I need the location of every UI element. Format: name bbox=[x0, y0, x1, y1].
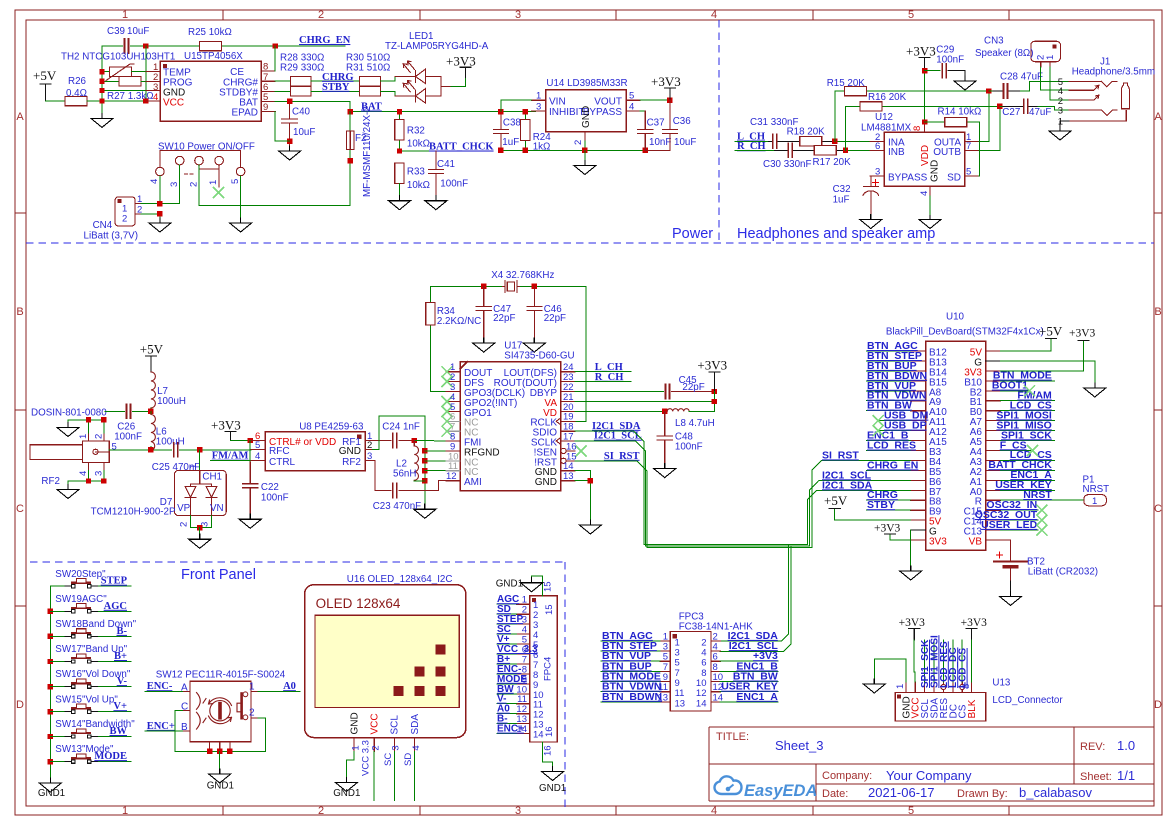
junction bbox=[48, 734, 53, 739]
capacitor C37 bbox=[638, 111, 653, 151]
svg-text:16: 16 bbox=[543, 745, 554, 756]
wire INA feedback vertical bbox=[835, 91, 989, 141]
ground under C32 bbox=[860, 215, 882, 229]
encoder C and pin2 wires bbox=[175, 711, 265, 752]
junction bbox=[197, 447, 202, 452]
capacitor C27 bbox=[1000, 105, 1003, 107]
resistor R25 bbox=[200, 41, 222, 50]
FPC3 outer pin numbers bbox=[657, 631, 668, 703]
frame row tick marks left bbox=[15, 213, 26, 606]
svg-text:X4 32.768KHz: X4 32.768KHz bbox=[491, 270, 554, 281]
switch SW17 bbox=[50, 644, 131, 663]
junction bbox=[248, 438, 253, 443]
svg-text:2: 2 bbox=[371, 745, 382, 750]
wire +5V to R26 bbox=[46, 100, 66, 102]
resistor R14 bbox=[925, 122, 980, 176]
svg-text:+3V3: +3V3 bbox=[211, 417, 241, 432]
svg-text:DOSIN-801-0080: DOSIN-801-0080 bbox=[31, 408, 107, 419]
svg-text:SDA: SDA bbox=[410, 714, 421, 735]
junction bbox=[667, 98, 672, 103]
ground under R33 bbox=[389, 196, 411, 210]
svg-text:GND: GND bbox=[350, 712, 361, 734]
svg-text:+5V: +5V bbox=[1039, 324, 1063, 339]
svg-text:2: 2 bbox=[94, 434, 105, 439]
svg-text:R31 510Ω: R31 510Ω bbox=[346, 62, 390, 73]
svg-text:GND1: GND1 bbox=[207, 781, 234, 792]
wire L_CH row bbox=[735, 140, 870, 142]
svg-text:CHRG_EN: CHRG_EN bbox=[867, 459, 918, 471]
IC U17 SI4735 bbox=[460, 362, 560, 491]
svg-text:Headphones and speaker amp: Headphones and speaker amp bbox=[737, 226, 935, 242]
IC U14 LD3985 bbox=[546, 90, 627, 132]
svg-text:AGC: AGC bbox=[104, 601, 127, 612]
svg-text:STBY: STBY bbox=[322, 82, 350, 93]
ground U10 left G bbox=[900, 566, 922, 580]
svg-text:Date:: Date: bbox=[822, 788, 848, 800]
junction bbox=[48, 709, 53, 714]
U10 right pin names bbox=[964, 348, 983, 548]
svg-text:2: 2 bbox=[318, 9, 324, 21]
svg-text:U15TP4056X: U15TP4056X bbox=[184, 51, 243, 62]
FPC3 left wires bbox=[601, 641, 660, 702]
wire SDIO bundle bbox=[575, 431, 817, 544]
junction bbox=[207, 749, 212, 754]
net labels U10 left bbox=[822, 340, 929, 511]
svg-text:+3V3: +3V3 bbox=[874, 523, 901, 535]
svg-text:2: 2 bbox=[122, 214, 127, 225]
svg-text:ENC1_A: ENC1_A bbox=[736, 691, 778, 703]
switch SW20 bbox=[50, 569, 131, 588]
OLED VCC wire bbox=[373, 752, 375, 801]
svg-text:R17 20K: R17 20K bbox=[813, 157, 852, 168]
wire SDA branch to FPC3 bbox=[720, 544, 788, 641]
svg-text:BW: BW bbox=[109, 726, 127, 737]
wire VIN from BAT bbox=[501, 100, 532, 111]
wire EPAD to C40 bottom bbox=[275, 112, 289, 142]
junction bbox=[397, 148, 402, 153]
U13 pin stubs bbox=[906, 682, 972, 692]
svg-text:1: 1 bbox=[208, 180, 219, 185]
section divider dashed front panel right bbox=[564, 562, 566, 812]
svg-text:LCD_Connector: LCD_Connector bbox=[992, 695, 1063, 706]
svg-text:2.2KΩ/NC: 2.2KΩ/NC bbox=[437, 316, 481, 327]
svg-text:+3V3: +3V3 bbox=[1069, 328, 1096, 340]
svg-text:15: 15 bbox=[544, 604, 555, 615]
FPC4 outer pin numbers bbox=[516, 595, 527, 735]
svg-text:C36: C36 bbox=[673, 116, 692, 127]
junction bbox=[287, 139, 292, 144]
capacitor C48 bbox=[657, 411, 672, 463]
svg-text:CN4: CN4 bbox=[93, 220, 113, 231]
svg-text:4: 4 bbox=[711, 805, 717, 817]
svg-text:Your Company: Your Company bbox=[886, 768, 972, 783]
svg-text:GND: GND bbox=[535, 477, 557, 488]
svg-text:1: 1 bbox=[1092, 496, 1097, 507]
svg-text:R29 330Ω: R29 330Ω bbox=[280, 62, 324, 73]
svg-text:13: 13 bbox=[657, 692, 668, 703]
svg-text:C28 47uF: C28 47uF bbox=[1000, 72, 1043, 83]
svg-text:100uH: 100uH bbox=[156, 437, 185, 448]
NC cross bbox=[442, 416, 452, 426]
svg-text:2: 2 bbox=[179, 522, 190, 527]
ground bbox=[523, 338, 545, 352]
inductor L8 bbox=[575, 410, 665, 412]
svg-text:Power: Power bbox=[672, 226, 713, 242]
svg-text:2: 2 bbox=[249, 708, 255, 719]
svg-text:6: 6 bbox=[875, 141, 880, 152]
FPC3 stubs bbox=[660, 641, 720, 702]
junction bbox=[148, 409, 153, 414]
ground bbox=[1049, 126, 1071, 140]
junction top rail left bbox=[143, 43, 148, 48]
FPC3 right wires bbox=[720, 661, 778, 702]
svg-text:+5V: +5V bbox=[140, 342, 164, 357]
capacitor C31 bbox=[773, 134, 777, 148]
capacitor C23 and AMI path bbox=[375, 460, 446, 490]
svg-text:100nF: 100nF bbox=[675, 441, 703, 452]
svg-text:ENC+: ENC+ bbox=[147, 721, 175, 732]
svg-text:3: 3 bbox=[536, 101, 541, 112]
svg-text:V+: V+ bbox=[113, 701, 127, 712]
junction bbox=[523, 109, 528, 114]
svg-text:100uH: 100uH bbox=[157, 396, 186, 407]
junction bbox=[422, 458, 427, 463]
switch contacts bbox=[65, 754, 97, 763]
svg-text:2: 2 bbox=[367, 440, 372, 451]
svg-text:+3V3: +3V3 bbox=[899, 617, 926, 629]
svg-text:1/1: 1/1 bbox=[1117, 768, 1135, 783]
svg-text:VB: VB bbox=[969, 537, 983, 548]
svg-text:C40: C40 bbox=[292, 107, 311, 118]
OLED SD wire bbox=[414, 752, 416, 801]
junction bbox=[48, 659, 53, 664]
svg-text:100nF: 100nF bbox=[440, 178, 468, 189]
OLED screen bbox=[315, 615, 459, 707]
ground under U12 bbox=[919, 215, 941, 229]
ground at C29 bbox=[954, 76, 976, 90]
svg-text:LiBatt (3,7V): LiBatt (3,7V) bbox=[84, 231, 138, 242]
junction bbox=[101, 417, 106, 422]
inductor L7 bbox=[151, 372, 156, 408]
ground bbox=[209, 769, 231, 783]
svg-text:C: C bbox=[1154, 503, 1162, 515]
ground under U17 bbox=[575, 471, 591, 520]
FPC4 pin15 top bbox=[532, 576, 543, 596]
svg-text:INB: INB bbox=[888, 147, 905, 158]
wire LED to +3V3 bbox=[451, 77, 466, 86]
svg-text:RF2: RF2 bbox=[342, 457, 361, 468]
junction bbox=[422, 468, 427, 473]
svg-text:10uF: 10uF bbox=[293, 127, 315, 138]
junction bbox=[412, 438, 417, 443]
svg-text:3: 3 bbox=[875, 167, 880, 178]
svg-text:+3V3: +3V3 bbox=[906, 43, 936, 58]
junction bbox=[997, 104, 1002, 109]
svg-text:4: 4 bbox=[629, 101, 634, 112]
wire R_CH row bbox=[735, 149, 870, 151]
IC U15 TP4056 bbox=[160, 61, 261, 121]
svg-text:1.0: 1.0 bbox=[1117, 738, 1135, 753]
wire SCL branch to FPC3 bbox=[720, 546, 791, 651]
U13 signal wires up bbox=[925, 640, 963, 682]
title block bbox=[709, 727, 1154, 801]
svg-text:9: 9 bbox=[263, 102, 268, 113]
svg-text:4: 4 bbox=[78, 471, 89, 476]
section divider dashed horizontal power bbox=[26, 242, 1154, 244]
junction R26 column bbox=[99, 98, 104, 103]
OLED pin names rotated bbox=[350, 712, 421, 734]
IC U8 PE4259 bbox=[265, 432, 365, 471]
X at USB_DM bbox=[873, 416, 883, 426]
svg-text:+3V3: +3V3 bbox=[651, 74, 681, 89]
capacitor C32 polarized bbox=[863, 176, 879, 214]
svg-text:GND1: GND1 bbox=[333, 788, 360, 799]
FPC3 right labels bbox=[721, 630, 778, 703]
capacitor C39 bbox=[125, 39, 129, 53]
junction bbox=[498, 109, 503, 114]
svg-text:R26: R26 bbox=[68, 76, 87, 87]
svg-text:10kΩ: 10kΩ bbox=[407, 139, 430, 150]
resistor R34 bbox=[431, 286, 446, 391]
junction bbox=[481, 284, 486, 289]
svg-text:100nF: 100nF bbox=[936, 55, 964, 66]
resistor R32 bbox=[399, 112, 401, 151]
svg-text:C22: C22 bbox=[261, 482, 279, 493]
wire TH2/R27 to VCC column bbox=[131, 46, 146, 101]
svg-text:CHRG_EN: CHRG_EN bbox=[299, 35, 351, 46]
svg-text:TH2 NTCG103UH103HT1: TH2 NTCG103UH103HT1 bbox=[61, 52, 175, 63]
svg-text:3: 3 bbox=[94, 471, 105, 476]
wire R26 to VCC pin bbox=[87, 100, 146, 102]
svg-text:CN3: CN3 bbox=[984, 36, 1004, 47]
resistor R24 bbox=[524, 112, 526, 151]
svg-text:VP: VP bbox=[177, 503, 191, 514]
wire BAT net bbox=[350, 101, 536, 111]
capacitor C36 bbox=[645, 100, 677, 150]
resistor R30 bbox=[359, 77, 380, 87]
section divider dashed vertical power/amp bbox=[718, 20, 720, 243]
svg-text:CH1: CH1 bbox=[202, 472, 222, 483]
svg-text:3: 3 bbox=[169, 182, 180, 187]
switch SW14 bbox=[50, 719, 135, 738]
svg-text:47uF: 47uF bbox=[1029, 107, 1051, 118]
svg-text:A0: A0 bbox=[283, 681, 296, 692]
svg-text:SI_RST: SI_RST bbox=[604, 451, 640, 462]
svg-text:R18 20K: R18 20K bbox=[787, 126, 826, 137]
svg-text:4: 4 bbox=[149, 179, 160, 184]
svg-text:b_calabasov: b_calabasov bbox=[1019, 785, 1092, 800]
U10 left stubs bbox=[911, 351, 926, 540]
svg-text:C37: C37 bbox=[647, 118, 665, 129]
svg-text:VCC 3.3: VCC 3.3 bbox=[360, 740, 371, 776]
junction bbox=[348, 158, 353, 163]
capacitor C45 bbox=[575, 391, 664, 393]
svg-text:5: 5 bbox=[908, 805, 914, 817]
svg-text:5: 5 bbox=[629, 91, 634, 102]
junction left column 1 bbox=[99, 69, 104, 74]
capacitor C40 bbox=[282, 101, 298, 146]
junction bbox=[532, 284, 537, 289]
svg-text:GND: GND bbox=[930, 160, 941, 182]
capacitor C47 bbox=[476, 286, 491, 338]
svg-text:VN: VN bbox=[210, 503, 224, 514]
junction bbox=[101, 478, 106, 483]
svg-text:C24 1nF: C24 1nF bbox=[382, 421, 420, 432]
svg-text:1: 1 bbox=[249, 682, 255, 693]
svg-text:LCD_RES: LCD_RES bbox=[867, 440, 916, 452]
ground bbox=[1000, 591, 1022, 605]
svg-text:10kΩ: 10kΩ bbox=[407, 180, 430, 191]
connector CN4 bbox=[115, 197, 135, 226]
switch contacts bbox=[65, 704, 97, 713]
svg-text:15: 15 bbox=[543, 581, 554, 592]
svg-text:LM4881MX: LM4881MX bbox=[861, 122, 912, 133]
svg-text:1: 1 bbox=[137, 194, 142, 205]
svg-text:C23 470nF: C23 470nF bbox=[373, 501, 421, 512]
svg-text:1: 1 bbox=[536, 91, 541, 102]
wires SW10 bottom bbox=[140, 165, 350, 218]
svg-text:BATT_CHCK: BATT_CHCK bbox=[429, 142, 494, 153]
svg-text:Company:: Company: bbox=[822, 770, 872, 782]
svg-text:U13: U13 bbox=[992, 678, 1011, 689]
frame column tick marks top bbox=[223, 10, 1009, 20]
capacitor C29 bbox=[925, 70, 941, 72]
U13 pin names rotated bbox=[901, 696, 978, 718]
NC cross bbox=[442, 406, 452, 416]
svg-text:C30 330nF: C30 330nF bbox=[763, 159, 811, 170]
svg-text:C39: C39 bbox=[107, 26, 125, 37]
ground bbox=[473, 338, 495, 352]
wire U14 GND to rail bbox=[501, 141, 670, 150]
svg-text:1: 1 bbox=[1045, 55, 1056, 60]
NC cross bbox=[442, 397, 452, 407]
svg-text:Speaker (8Ω): Speaker (8Ω) bbox=[975, 48, 1034, 59]
fuse F2 bbox=[349, 112, 351, 206]
switch SW13 bbox=[50, 744, 131, 763]
junction bbox=[922, 68, 927, 73]
resistor R16 bbox=[860, 102, 882, 111]
ground bbox=[579, 520, 601, 534]
capacitor C46 bbox=[527, 286, 542, 338]
svg-text:5: 5 bbox=[255, 440, 260, 451]
svg-text:Sheet:: Sheet: bbox=[1080, 771, 1112, 783]
RF2 bottom ground loop bbox=[68, 471, 104, 485]
ground under SW10 pin5 bbox=[230, 218, 252, 232]
svg-text:12: 12 bbox=[446, 471, 457, 482]
ground bbox=[189, 534, 211, 548]
junction bbox=[582, 148, 587, 153]
resistor R17 bbox=[814, 146, 836, 155]
antenna connector RF2 bbox=[30, 433, 109, 471]
svg-text:+5V: +5V bbox=[33, 68, 57, 83]
wire SCLK bundle bbox=[575, 441, 819, 546]
U17 SEN cross bbox=[576, 446, 586, 456]
switch contacts bbox=[65, 604, 97, 613]
net label BATT_CHCK bbox=[400, 150, 483, 152]
svg-text:D: D bbox=[16, 699, 24, 711]
junction VCC node bbox=[143, 98, 148, 103]
wire +3V3 down to C22 bbox=[249, 441, 251, 463]
switch contacts bbox=[65, 579, 97, 588]
switch contacts bbox=[65, 679, 97, 688]
wire OUTA vertical bbox=[979, 91, 989, 141]
svg-text:VCC: VCC bbox=[163, 98, 184, 109]
svg-text:Sheet_3: Sheet_3 bbox=[775, 738, 823, 753]
resistor R26 bbox=[65, 96, 87, 105]
svg-text:I2C1_SDA: I2C1_SDA bbox=[822, 479, 873, 491]
U10 left net wires bbox=[817, 351, 911, 566]
U10 right wires bbox=[1001, 339, 1095, 531]
svg-text:R16 20K: R16 20K bbox=[868, 92, 907, 103]
svg-text:1uF: 1uF bbox=[833, 195, 850, 206]
svg-text:4: 4 bbox=[411, 745, 422, 750]
svg-text:2021-06-17: 2021-06-17 bbox=[868, 785, 935, 800]
svg-text:2: 2 bbox=[573, 140, 584, 145]
capacitor C24 bbox=[380, 440, 415, 442]
svg-text:3: 3 bbox=[515, 805, 521, 817]
inductor L6 bbox=[150, 411, 152, 414]
svg-text:SW12 PEC11R-4015F-S0024: SW12 PEC11R-4015F-S0024 bbox=[156, 669, 286, 680]
svg-text:LCD_CS: LCD_CS bbox=[958, 648, 969, 688]
svg-text:U14 LD3985M33R: U14 LD3985M33R bbox=[546, 78, 627, 89]
svg-text:16: 16 bbox=[544, 726, 555, 737]
svg-text:5: 5 bbox=[112, 442, 117, 453]
svg-text:+3V3: +3V3 bbox=[961, 617, 988, 629]
junction bbox=[217, 749, 222, 754]
svg-text:2: 2 bbox=[137, 204, 142, 215]
U17 pin numbers bbox=[446, 362, 577, 482]
junction bbox=[227, 749, 232, 754]
junction bbox=[422, 448, 427, 453]
resistor R28 bbox=[291, 77, 312, 87]
wire VOUT to +3V3 bbox=[640, 99, 670, 101]
svg-text:10uF: 10uF bbox=[127, 26, 149, 37]
IC U12 LM4881 bbox=[884, 132, 964, 186]
ground bbox=[574, 161, 596, 175]
junction bbox=[287, 99, 292, 104]
wire RF2 to C25 bbox=[109, 449, 251, 451]
net labels U10 right bbox=[975, 370, 1053, 531]
junction bbox=[588, 478, 593, 483]
ground under C41 bbox=[425, 196, 447, 210]
switch SW15 bbox=[50, 694, 131, 713]
inductor L2 bbox=[413, 441, 415, 446]
svg-text:R25 10kΩ: R25 10kΩ bbox=[188, 27, 232, 38]
LED1 dual led bbox=[380, 77, 395, 97]
junction bbox=[157, 211, 162, 216]
svg-text:INHIBIT: INHIBIT bbox=[549, 107, 585, 118]
X at USB_DP bbox=[873, 426, 883, 436]
svg-text:0.4Ω: 0.4Ω bbox=[66, 88, 87, 99]
switch SW19 bbox=[50, 594, 131, 613]
battery BT2 bbox=[986, 540, 1011, 562]
ground U10 right G bbox=[1084, 383, 1106, 397]
ground bbox=[542, 767, 564, 781]
junction bbox=[48, 684, 53, 689]
svg-text:LiBatt (CR2032): LiBatt (CR2032) bbox=[1028, 566, 1098, 577]
svg-text:SI_RST: SI_RST bbox=[822, 449, 859, 461]
ground under C40 bbox=[279, 146, 301, 160]
junction INB node bbox=[843, 148, 848, 153]
FPC4 pin16 bottom bbox=[543, 742, 553, 766]
U10 left pin names bbox=[929, 348, 947, 548]
NC cross SW10 pin1 bbox=[213, 188, 223, 198]
FPC3 left labels bbox=[602, 630, 662, 703]
svg-text:2: 2 bbox=[318, 805, 324, 817]
svg-text:STEP: STEP bbox=[101, 576, 128, 587]
svg-text:MODE: MODE bbox=[94, 751, 127, 762]
svg-text:EasyEDA: EasyEDA bbox=[744, 782, 817, 800]
